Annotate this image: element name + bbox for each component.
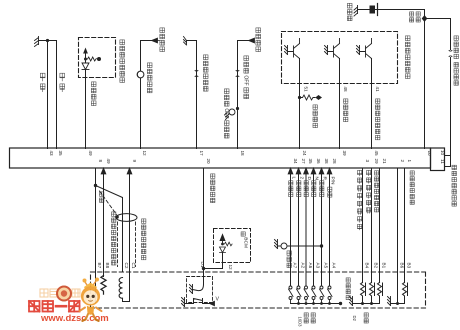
wire (appendix bracket pin11) [445,156,451,167]
switch (2) [297,286,300,289]
wire (solenoid return B6) [397,168,399,304]
watermark text 维库一下 [29,301,80,312]
node (speed signal junction) [202,267,205,270]
svg-text:2: 2 [299,177,305,180]
label 蓄电池 [347,3,352,20]
wire (OD indicator circuit) [187,41,197,149]
svg-text:V: V [216,297,220,303]
wire (ground pin 35) [56,41,58,149]
svg-text:www.dzsc.com: www.dzsc.com [40,313,109,324]
node (tap on R switch wire) [320,244,323,247]
svg-text:48: 48 [343,87,348,93]
wire (Q2 output to pin 39) [339,59,341,149]
diode D2 (BCM) [220,247,226,253]
connector (inline pair on OD OFF switch wire) [236,71,239,77]
label 车速传感器 [211,174,215,203]
svg-text:18: 18 [240,151,245,157]
connector (inline pair right side) [449,51,452,57]
node (junction in cluster) [84,58,87,61]
label 档位开关 [304,313,308,323]
label 点火开关 [410,12,414,22]
arrow (supply arrow inside cluster) [85,54,87,59]
wire (valve body common left) [353,303,380,305]
label 超速档"OFF"指示灯 [223,89,229,138]
label 液压电磁阀输入 [375,171,379,212]
label D档开关 [304,177,312,197]
svg-text:C1: C1 [131,263,136,269]
connector (inline pair on OD indicator) [195,71,198,77]
inductor L1 (output speed sensor coil) [119,278,122,299]
ground G4 (speed sensor) [190,285,193,294]
label L档开关 [289,177,297,197]
svg-text:A2: A2 [301,263,306,269]
switch (N) [312,286,315,289]
svg-text:9: 9 [132,160,137,163]
svg-text:R: R [322,177,328,181]
lamp (MIL indicator) [137,71,144,78]
node (BCM junction) [221,243,224,246]
svg-text:38: 38 [324,159,329,165]
wire (shield diagonal to pair) [96,186,123,273]
svg-text:L: L [291,177,297,180]
svg-text:B6: B6 [400,263,405,269]
svg-text:10: 10 [440,150,445,156]
node (shield dot on oval) [115,215,119,219]
resistor R3 (BCM) [225,242,233,246]
arrow (ignition voltage feed) [152,38,160,43]
wire (appendix bracket pin10) [445,155,451,157]
ground G8 (valve body right) [388,297,391,306]
svg-text:B2: B2 [374,263,379,269]
arrow (pin 9 output up) [127,168,132,174]
solenoid coil SOL3 [378,283,383,298]
svg-text:36: 36 [316,159,321,165]
watermark faint upper text [40,289,80,297]
switch contacts (gear position switches) [289,286,333,304]
wire (into speed sensor) [203,269,205,285]
ECU dashed box 发动机控制单元 [282,32,398,84]
svg-text:39: 39 [342,151,347,157]
svg-text:A3: A3 [316,263,321,269]
svg-text:49: 49 [88,151,93,157]
svg-text:B4: B4 [365,263,370,269]
wire (ground feed horizontal) [39,40,57,42]
wire (Q3 output to pin 45) [371,59,373,149]
node (OD OFF lamp tap) [236,107,239,110]
svg-text:2: 2 [400,160,405,163]
switch (P/N) [328,286,331,289]
wire (speed output to pin 49) [85,59,87,149]
wire (down to ignition node) [424,10,426,149]
label 接地 (right) [60,73,65,92]
node (junction dot at ground tee) [46,39,49,42]
svg-text:A5: A5 [324,263,329,269]
svg-text:24: 24 [302,151,307,157]
label 倒车灯 [287,251,291,268]
label 仪表板控制模块 [120,40,125,83]
callout (dashed diagonal to shield) [100,191,117,215]
label 接地 (left) [40,73,45,92]
label 2档开关 [297,177,305,197]
svg-text:34: 34 [293,159,298,165]
svg-text:12: 12 [228,265,233,271]
wire (ground pin 43) [47,41,49,149]
label 超速档"OFF"开关 [243,56,249,99]
arrow (pin 28 up) [327,168,332,174]
arrow (to V terminal) [210,301,215,305]
label 变速器禁止电磁阀 [358,170,362,230]
node (shield tap dot) [94,184,97,187]
wire (solenoid bottom stubs) [363,298,405,304]
svg-text:29: 29 [374,159,379,165]
transistor Q3 [357,39,372,59]
node (ignition switch junction diamond) [422,15,428,22]
label 点火电压 (valve body) [346,278,350,300]
TCU main box 自动变速器控制单元 [10,148,431,168]
transmission assembly dashed box [91,272,426,308]
switch (R) [320,286,323,289]
label 电源电压 [256,28,261,52]
label 点火电压 [160,28,165,52]
wire (P/N switch) [329,174,331,287]
BCM dashed box [214,229,251,263]
svg-text:21: 21 [382,159,387,165]
svg-text:12: 12 [142,151,147,157]
arrow (pin 36 up) [311,168,316,174]
wire (battery feed) [358,9,425,11]
label 变速器输出转速 [112,212,116,265]
transistor Q1 [285,39,300,59]
arrow (pin 38 up) [319,168,324,174]
label 动力转向(点火电压) [454,36,458,85]
label 涡轮传感器 [142,219,146,260]
solenoid coil SOL4 [403,283,408,298]
solenoid coil SOL1 [361,283,366,298]
svg-text:17: 17 [199,151,204,157]
svg-text:45: 45 [374,151,379,157]
wire (vehicle speed signal pin 20) [203,168,205,269]
svg-text:D2: D2 [352,316,357,322]
label N档开关 [312,177,320,197]
svg-text:C2: C2 [124,263,129,269]
ground G7 (valve body left) [350,297,353,306]
switch (L) [289,286,292,289]
label 变速器控制单元 [452,165,456,206]
svg-text:35: 35 [308,159,313,165]
label 发动机控制单元 [405,36,410,79]
arrow (supply voltage feed) [249,38,255,43]
wire (R switch) [321,174,323,287]
node (solenoid commons) [361,302,364,305]
switch S1 (speed switch to V) [185,299,211,304]
svg-text:B8: B8 [105,263,110,269]
wire (OD OFF switch circuit) [238,41,250,149]
shield tube dashed sides [118,222,136,267]
wire (N switch) [313,174,315,287]
wire (shield drain down) [95,186,97,303]
watermark badge (dzsc circle) [56,286,72,302]
svg-text:B7: B7 [97,263,102,269]
wire (sensor wire B8) [103,174,105,277]
lamp (OD OFF indicator diagonal) [229,109,235,115]
watermark mascot [80,278,102,321]
svg-text:43: 43 [49,151,54,157]
label 超速档指示灯 [203,55,208,91]
svg-text:28: 28 [332,159,337,165]
label 主油压电磁阀 [410,171,414,204]
svg-text:OFF: OFF [243,75,249,85]
wire (line pressure solenoid B3) [404,168,406,283]
instrument cluster module dashed box [79,38,116,78]
wire (gear switch common) [291,303,341,305]
svg-text:11: 11 [440,159,445,164]
node (return dot) [396,302,399,305]
wire (valve body common right) [391,303,405,305]
wire (2 switch) [298,174,300,287]
wire (reverse lamp feed) [278,245,322,247]
svg-text:A6: A6 [308,263,313,269]
arrow (BCM supply arrow) [220,235,225,244]
label 阀体 [364,313,368,323]
arrow (pin 34 up) [288,168,293,174]
node (resistor end dot) [97,57,101,61]
transistor Q2 [325,39,340,59]
svg-text:A7: A7 [293,263,298,269]
svg-text:B3: B3 [407,263,412,269]
wire (to power steering feed) [425,19,451,50]
resistor R2 (output series) [300,95,316,100]
ground G2 (OD lamp feed) [184,37,187,46]
svg-text:49: 49 [106,159,111,165]
switch (D) [305,286,308,289]
label 减速信号 [313,105,317,128]
label 屏蔽 [100,192,104,203]
label BCM [241,232,248,248]
solenoid coil SOL2 [370,283,375,298]
TCU appendix box [431,148,445,171]
wire (pressure solenoid 1 B1) [379,168,381,283]
diode D1 (speed output diode) [82,63,89,70]
svg-text:P/N: P/N [330,177,336,186]
wire (BCM output) [204,253,223,269]
ground G6 (reverse lamp) [275,240,278,249]
wire (sensor wire C1) [129,174,131,273]
arrow (pin 49 output up) [101,168,106,174]
svg-text:BCM: BCM [243,237,249,248]
label 故障指示灯 [147,63,152,93]
ground G1 (chassis ground top-left) [35,37,39,47]
svg-text:3: 3 [365,160,370,163]
wire (D switch) [305,174,307,287]
wire (inhibit solenoid B4) [362,168,364,283]
svg-text:OFF: OFF [223,108,229,118]
wire (pressure solenoid 2 B2) [371,168,373,283]
svg-text:20: 20 [206,159,211,165]
svg-text:D: D [306,177,312,181]
ground G3 (battery feed hatch) [354,6,358,17]
svg-text:1: 1 [407,160,412,163]
lamp (reverse lamp) [281,243,287,249]
svg-text:10: 10 [427,151,432,157]
svg-text:27: 27 [301,159,306,165]
node (diamond terminal) [315,95,322,100]
label P/N开关 [328,177,336,198]
wire (MIL lamp circuit) [141,41,153,149]
connector oval (twisted pair) [116,214,137,222]
svg-text:16D3: 16D3 [298,317,303,328]
wire (shield drain pin 8) [95,168,97,186]
svg-text:41: 41 [375,87,380,93]
wire (Q1 output to pin 24) [299,59,301,149]
fuse F1 [370,6,376,14]
svg-text:51: 51 [304,87,309,93]
label R档开关 [320,177,328,197]
arrow (pin 27 up) [296,168,301,174]
node (common dots) [297,302,300,305]
resistor R1 (cluster pull-up) [88,57,97,61]
svg-text:8: 8 [98,160,103,163]
node (resistor tap) [298,96,301,99]
label 车速输出 [91,82,96,106]
svg-text:A4: A4 [332,263,337,269]
wire (L switch) [290,174,292,287]
wire (power steering feed down) [450,58,452,156]
label 液压电磁阀2 [367,171,371,214]
label 加速信号 [344,99,348,122]
speed sensor inner dashed box [187,277,213,303]
sensor hook (speed sensor pickup) [193,285,204,291]
svg-text:N: N [314,177,320,181]
svg-text:35: 35 [58,151,63,157]
resistor R4 (sensor load B8) [101,276,106,295]
wire (coil loop closing) [123,272,130,302]
svg-text:D1: D1 [200,262,205,268]
svg-text:B1: B1 [382,263,387,269]
arrow (pin 35 up) [304,168,309,174]
label 节气门开度信号 [376,99,380,140]
ground G5 (V circuit) [182,298,185,307]
